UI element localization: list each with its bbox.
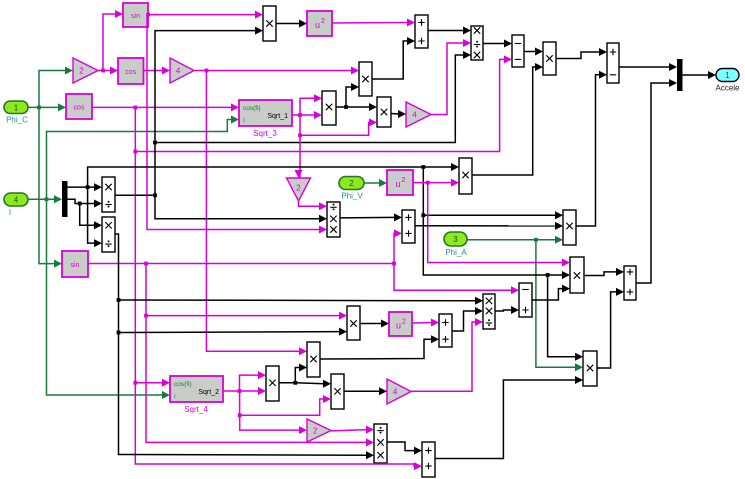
- svg-text:cos: cos: [125, 69, 136, 76]
- product B7 (x): [543, 42, 556, 75]
- node B24 net junction 2: [117, 331, 121, 335]
- wire product B24 out: [115, 234, 119, 333]
- wire Sqrt_3 out: [292, 114, 300, 116]
- svg-text:Phi_A: Phi_A: [445, 248, 467, 257]
- svg-text:2: 2: [349, 179, 354, 188]
- svg-text:Accele: Accele: [715, 84, 740, 93]
- u^2 block top: [307, 11, 332, 36]
- node net y167 junction: [421, 165, 425, 169]
- inport 2 Phi_V: [339, 177, 364, 201]
- node Sqrt_3 junction 1: [298, 113, 302, 117]
- node u^2 mid junction: [426, 181, 430, 185]
- wire sum B50 to product B42 bottom: [435, 376, 583, 459]
- node cos lower junction 1: [133, 106, 137, 110]
- wire sum B29 to product B31: [415, 222, 563, 230]
- wire net y275 to product B33 mid: [548, 271, 570, 279]
- wire B23 net to product B5 x bottom: [155, 51, 471, 143]
- node gain2 out junction: [101, 69, 105, 73]
- wire B18 branch up to product B14: [346, 83, 359, 107]
- gain 4 (triangle) top: [170, 58, 194, 83]
- sum B38 (- +): [519, 283, 532, 317]
- wire product B30 to product B7: [472, 63, 543, 175]
- wire product B2 to u^2: [276, 20, 307, 28]
- wire gain2 bottom to product B49 divide: [331, 426, 374, 434]
- node sin lower junction 2: [144, 314, 148, 318]
- wire Sqrt_4 branch to product B46 bottom: [240, 395, 331, 415]
- svg-text:Sqrt_1: Sqrt_1: [267, 113, 288, 120]
- svg-text:Sqrt_2: Sqrt_2: [198, 389, 219, 396]
- product B30 (x): [459, 158, 472, 194]
- svg-text:1: 1: [725, 71, 730, 80]
- wire B24 net to product B37 x top: [119, 297, 484, 305]
- cos block upper: [118, 58, 144, 84]
- wire sum B8 to mux: [619, 63, 677, 71]
- wire product B45 to sum B36: [320, 335, 439, 359]
- product B49 (/ x x): [374, 424, 387, 463]
- svg-text:2: 2: [79, 67, 84, 76]
- wire B24 net to product B49 x bottom: [119, 333, 375, 460]
- sum B50 (++): [422, 442, 435, 477]
- product B14 (x): [359, 62, 372, 96]
- svg-text:3: 3: [453, 235, 458, 244]
- wire B24 net to product B39 bottom: [119, 328, 348, 336]
- wire mux to outport Accele: [683, 71, 717, 79]
- wire Sqrt_3 to product B18 bottom: [300, 111, 322, 119]
- wire I branch down to Sqrt_4 I input: [47, 199, 171, 399]
- wire product B19 to gain4 row3: [391, 110, 406, 118]
- wire gain4 branch down to product B45: [206, 71, 307, 356]
- wire product B18 out: [336, 106, 346, 108]
- svg-text:I: I: [9, 208, 11, 217]
- wire gain4 to product B14: [194, 67, 359, 75]
- wire B44 to product B46 top: [295, 380, 331, 388]
- node Sqrt_4 junction 1: [238, 389, 242, 393]
- wire product B42 to sum B34: [597, 288, 624, 368]
- wire sum B36 to product B37 mid: [452, 307, 483, 331]
- wire cos lower branch down: [135, 107, 422, 470]
- sum B34 (++): [624, 266, 636, 300]
- node gain4 out junction: [205, 69, 209, 73]
- wire demux out1 to product B23 x: [68, 183, 103, 191]
- wire Phi_C branch down to sin lower: [39, 107, 62, 267]
- svg-text:I: I: [243, 118, 245, 125]
- inport 3 Phi_A: [444, 232, 467, 257]
- sum B8 (+ -): [607, 43, 619, 83]
- wire sum B34 to mux: [636, 79, 677, 283]
- subsystem Sqrt_3 (ports cos(fi), I -> Sqrt_1): [239, 100, 292, 138]
- wire gain4 bottom to product B37 divide: [411, 318, 483, 391]
- wire u^2 bottom to sum B36: [412, 319, 439, 327]
- svg-text:2: 2: [313, 427, 318, 436]
- wire B23 net up to product B2: [155, 27, 263, 196]
- svg-text:Sqrt_3: Sqrt_3: [253, 129, 277, 138]
- wire gain2 to cos upper: [98, 67, 118, 75]
- wire demux out2 branch to product B24 x: [80, 204, 102, 230]
- wire Sqrt_3 branch to product B18 top: [300, 94, 322, 115]
- svg-text:cos: cos: [74, 104, 85, 111]
- svg-text:Sqrt_4: Sqrt_4: [184, 405, 208, 414]
- product B5 (x / x): [471, 26, 483, 60]
- wire product B39 to u^2 bottom: [360, 320, 389, 328]
- wire product B49 to sum B50: [387, 442, 422, 455]
- svg-text:cos(fi): cos(fi): [243, 105, 261, 112]
- inport 4 I: [4, 193, 28, 217]
- product B18 (x): [322, 91, 336, 125]
- node Phi_A junction: [534, 238, 538, 242]
- svg-text:4: 4: [14, 196, 19, 205]
- wire Sqrt_4 out: [223, 391, 240, 415]
- svg-text:Phi_V: Phi_V: [341, 192, 363, 201]
- wire sin lower branch to sum B38 minus: [394, 264, 519, 295]
- svg-text:2: 2: [402, 177, 406, 184]
- svg-text:4: 4: [393, 388, 398, 397]
- svg-text:sin: sin: [71, 262, 80, 269]
- node B24 net junction 1: [117, 298, 121, 302]
- wire sin lower branch to product B39 top: [146, 264, 347, 320]
- node B23 net junction 2: [153, 141, 157, 145]
- sin block (Trigonometric Function): [123, 3, 148, 27]
- wire u^2 mid to product B30 bottom: [413, 179, 459, 187]
- product B44 (x): [266, 366, 279, 401]
- wire branch up to sin: [103, 10, 123, 71]
- wire u^2 mid branch down to product B33 top: [428, 183, 570, 267]
- gain 4 (triangle) bottom: [387, 379, 411, 404]
- wire product B31 to sum B8: [576, 71, 607, 226]
- wire product B44 out: [279, 382, 295, 384]
- gain 2 (triangle) bottom: [307, 419, 331, 442]
- product B19 (x): [377, 97, 391, 127]
- node demux out1 junction: [86, 185, 90, 189]
- wire product B23 out: [115, 194, 155, 196]
- wire demux out1 branch down to product B24 divide: [88, 187, 102, 247]
- wire Sqrt_4 branch to gain2 bottom: [240, 415, 307, 434]
- wire Phi_C to cos lower: [28, 103, 66, 111]
- demux (black bar): [62, 181, 68, 217]
- wire cos branch to Sqrt_4 cos(fi) input: [135, 379, 170, 387]
- wire product B14 to sum B4: [372, 37, 415, 79]
- u^2 block middle: [387, 170, 413, 195]
- node net y215 junction: [421, 213, 425, 217]
- svg-text:2: 2: [321, 18, 325, 25]
- product B24 (x /): [102, 217, 115, 252]
- wire cos branch to sum B6: [135, 55, 512, 151]
- wire product B28 to sum B29: [340, 213, 402, 221]
- svg-text:u: u: [396, 321, 401, 331]
- sum B4 (++): [415, 15, 428, 48]
- node Sqrt_3 junction 2: [298, 133, 302, 137]
- gain 2 (triangle) top-left: [73, 58, 98, 83]
- wire sin lower to sum B29 bottom: [88, 229, 402, 263]
- wire cos upper to gain4: [144, 67, 171, 75]
- wire net y167 branch down to product B31 top: [423, 167, 563, 219]
- wire u^2 to sum B4: [332, 19, 415, 27]
- wire demux out1 branch up y167 to product B30: [88, 163, 459, 187]
- wire product B33 to sum B34: [584, 268, 624, 276]
- svg-text:4: 4: [176, 67, 181, 76]
- svg-text:sin: sin: [131, 13, 140, 20]
- node sin lower junction 1: [144, 262, 148, 266]
- wire I branch up to Sqrt_3 I input: [47, 116, 240, 200]
- wire B23 net to product B28 x mid: [155, 195, 327, 223]
- product B31 (x): [563, 210, 576, 245]
- wire Phi_A to product B31: [467, 236, 563, 244]
- wire Sqrt_3 branch to product B19 bottom: [300, 118, 377, 135]
- wire Phi_C branch up to gain2: [39, 67, 73, 108]
- gain 4 (triangle) row3: [406, 102, 431, 127]
- wire Phi_A branch down to product B42: [536, 240, 583, 372]
- wire net branch down to y275: [423, 215, 547, 275]
- product B33 (x): [570, 257, 584, 293]
- node Phi_C junction: [37, 106, 41, 110]
- sin block lower: [62, 251, 88, 277]
- wire sin lower branch to product B49 x mid: [146, 316, 374, 447]
- wire cos lower to Sqrt_3 cos(fi) input: [92, 103, 239, 111]
- wire product B5 to sum B6: [483, 40, 512, 48]
- product B45 (x): [307, 342, 320, 377]
- product B2 (x) top: [263, 6, 276, 41]
- svg-text:Phi_C: Phi_C: [6, 116, 28, 125]
- wire Sqrt_4 to product B44 bottom: [240, 387, 267, 395]
- svg-text:I: I: [174, 394, 176, 401]
- svg-text:u: u: [315, 20, 320, 30]
- sum B29 (++): [402, 210, 415, 243]
- svg-text:4: 4: [412, 111, 417, 120]
- product B28 (/ x x): [327, 202, 340, 237]
- wire Sqrt_4 branch to product B44 top: [240, 371, 267, 391]
- cos block lower: [66, 94, 92, 119]
- gain 2 down-pointing triangle: [287, 178, 311, 201]
- product B42 (x): [583, 351, 597, 386]
- u^2 block bottom: [389, 312, 412, 336]
- node B23 net junction 1: [153, 193, 157, 197]
- product B39 (x): [347, 306, 360, 340]
- node cos lower junction 3: [133, 381, 137, 385]
- wire sin out to product B2: [148, 11, 263, 19]
- wire B44 branch up to product B45 bottom: [295, 364, 307, 383]
- sum B6 (- -): [512, 35, 524, 67]
- sum B36 (++): [439, 314, 452, 347]
- svg-text:2: 2: [402, 319, 406, 326]
- node Sqrt_4 junction 2: [238, 413, 242, 417]
- wire gain4 row3 to product B5 divide: [431, 39, 471, 115]
- wire B18 to product B19 top: [346, 103, 377, 111]
- wire product B7 to sum B8: [556, 48, 607, 59]
- wire demux out2 to product B23 divide: [80, 200, 102, 208]
- node sin lower junction 3: [392, 262, 396, 266]
- wire product B37 to sum B38: [495, 306, 519, 314]
- node B44 out junction: [293, 381, 297, 385]
- product B37 (x x /): [483, 294, 495, 329]
- node cos lower junction 2: [133, 150, 137, 154]
- product B23 (x /): [102, 177, 115, 212]
- wire product B46 to gain4 bottom: [344, 387, 387, 395]
- node demux out2 junction: [78, 202, 82, 206]
- wire net branch down to product B42 top: [548, 275, 583, 361]
- wire demux out2: [68, 199, 80, 203]
- node I junction: [45, 197, 49, 201]
- wire sum B6 to product B7: [524, 48, 543, 56]
- wire gain2 down to product B28: [299, 201, 328, 210]
- svg-text:1: 1: [14, 103, 19, 112]
- inport 1 Phi_C: [4, 101, 28, 125]
- outport 1 Accele: [715, 69, 740, 93]
- wire sin branch down to B28: [147, 15, 327, 234]
- svg-text:u: u: [395, 179, 400, 189]
- node net y275 junction: [546, 273, 550, 277]
- node sin out junction: [146, 13, 150, 17]
- product B46 (x): [331, 374, 344, 409]
- wire sum B4 to product B5: [428, 27, 471, 35]
- subsystem Sqrt_4 (ports cos(fi), I -> Sqrt_2): [170, 376, 223, 414]
- wire sum B38 to product B33 bottom: [532, 285, 570, 300]
- wire I to demux: [28, 195, 62, 203]
- wire Phi_V to u^2: [364, 179, 387, 187]
- wire Sqrt_3 branch down to gain2 down: [295, 115, 303, 178]
- svg-text:2: 2: [296, 184, 301, 193]
- node B18 out junction: [344, 105, 348, 109]
- mux (black bar): [677, 59, 683, 91]
- svg-text:cos(fi): cos(fi): [174, 381, 192, 388]
